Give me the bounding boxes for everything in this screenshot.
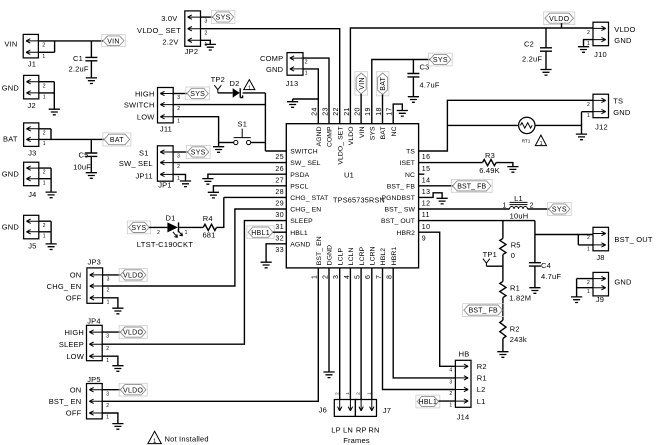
svg-text:RN: RN <box>368 425 379 434</box>
wire SYS to D1 anode <box>149 226 167 228</box>
wire JP3 pin1 to ground <box>103 298 118 308</box>
ground (J9) <box>571 297 582 303</box>
wire S1 left contact to ground <box>219 142 234 144</box>
svg-text:2: 2 <box>205 30 208 36</box>
svg-text:2: 2 <box>449 391 452 397</box>
wire switch node vertical to U1 pin25 <box>265 93 286 151</box>
svg-text:LOW: LOW <box>66 352 84 361</box>
connector J4 (GND header) <box>2 162 46 199</box>
svg-text:24: 24 <box>312 107 319 116</box>
switch S1 (pushbutton) <box>234 119 251 144</box>
wire JP1 pin2 to U1 pin26 SW_SEL <box>174 162 287 164</box>
svg-text:6.49K: 6.49K <box>479 166 500 175</box>
resistor R1 1.82M <box>500 281 531 302</box>
svg-text:BST_ EN: BST_ EN <box>316 236 323 265</box>
label LP LN RP RN <box>331 425 379 434</box>
svg-text:HBL1: HBL1 <box>290 230 308 237</box>
svg-text:1: 1 <box>106 415 109 421</box>
svg-text:NC: NC <box>405 172 415 179</box>
capacitor C1 2.2uF <box>69 41 98 78</box>
svg-text:2.2uF: 2.2uF <box>69 64 89 73</box>
svg-text:1: 1 <box>153 439 157 445</box>
svg-text:1: 1 <box>43 95 46 101</box>
wire U1 pin7 HBL2 to J14 pin2 <box>383 268 456 390</box>
svg-text:COMP: COMP <box>327 126 334 147</box>
svg-text:VIN: VIN <box>359 126 366 138</box>
ground (J12) <box>576 134 587 140</box>
svg-text:3.0V: 3.0V <box>161 14 177 23</box>
wire JP2 pin1 to ground <box>201 40 210 44</box>
ground (C1) <box>86 78 97 84</box>
wire J9 pins to ground <box>577 279 593 297</box>
svg-text:LCLP: LCLP <box>337 248 344 266</box>
svg-text:C5: C5 <box>79 151 89 160</box>
svg-text:JP1: JP1 <box>158 181 172 190</box>
svg-text:1: 1 <box>587 113 590 119</box>
svg-text:3: 3 <box>177 95 180 101</box>
svg-text:CHG_ EN: CHG_ EN <box>290 207 321 214</box>
svg-text:SYS: SYS <box>190 91 205 98</box>
svg-text:1: 1 <box>449 403 452 409</box>
svg-text:VLDO_ SET: VLDO_ SET <box>337 126 344 164</box>
wire U1 pin11 BST_SW to L1 <box>419 208 510 210</box>
svg-text:S1: S1 <box>238 119 248 128</box>
wire TS to thermistor RT1 <box>447 124 518 126</box>
svg-text:1.82M: 1.82M <box>509 294 531 303</box>
svg-text:VLDO: VLDO <box>614 25 635 34</box>
wire U1 pin13 BST_FB to net label <box>419 185 453 187</box>
svg-text:HBL2: HBL2 <box>380 248 387 266</box>
wire VLDO_SET net (JP2 pin2 to U1 pin22) <box>201 29 340 124</box>
svg-text:HIGH: HIGH <box>64 328 84 337</box>
svg-text:AGND: AGND <box>290 241 310 248</box>
wire L1 to SYS <box>528 208 549 210</box>
svg-text:31: 31 <box>275 224 284 231</box>
svg-text:GND: GND <box>266 65 284 74</box>
ground (C2) <box>540 70 551 76</box>
wire U1 pin14 NC stub <box>419 173 425 175</box>
ground (AGND pin33) <box>261 262 272 268</box>
svg-text:1: 1 <box>42 54 45 60</box>
connector J7 (RP/RN frames header) <box>355 392 391 417</box>
capacitor C3 4.7uF <box>407 60 439 97</box>
svg-text:BAT: BAT <box>380 126 387 139</box>
svg-text:243k: 243k <box>510 335 527 344</box>
svg-text:L1: L1 <box>514 194 523 203</box>
node SYS (at C3) <box>429 53 453 66</box>
svg-text:1: 1 <box>107 299 110 305</box>
connector JP2 (VLDO_SET select header) <box>137 11 207 56</box>
wire JP1 pin3 to SYS <box>174 151 188 153</box>
svg-text:J10: J10 <box>594 50 607 59</box>
svg-text:1: 1 <box>305 71 308 77</box>
svg-text:32: 32 <box>275 235 284 242</box>
svg-text:VLDO: VLDO <box>123 273 144 280</box>
svg-text:1: 1 <box>345 392 350 395</box>
wire U1 pin5 LCRP to J7 <box>360 268 362 400</box>
connector J10 (VLDO output header) <box>587 22 636 59</box>
svg-text:1: 1 <box>185 230 188 236</box>
wire U1 pin10 BST_OUT to C4/J8 <box>419 221 593 263</box>
warning triangle 1 (not installed note) <box>148 431 209 445</box>
node VLDO (top right net label) <box>544 12 575 28</box>
svg-text:1: 1 <box>177 118 180 124</box>
wire JP2 pin3 to SYS <box>201 16 213 18</box>
warning triangle 1 (at RT1) <box>535 135 546 147</box>
ground (R3) <box>507 167 518 173</box>
svg-text:RT1: RT1 <box>522 139 531 144</box>
svg-text:1: 1 <box>587 289 590 295</box>
wire JP1 pin1 to ground <box>174 174 186 181</box>
wire JP5 pin1 to ground <box>103 413 118 424</box>
svg-text:S1: S1 <box>139 148 149 157</box>
ground (J10) <box>578 47 589 53</box>
inductor L1 10uH <box>503 194 534 220</box>
ground (C5) <box>86 173 97 179</box>
svg-text:HBL1: HBL1 <box>418 399 437 406</box>
svg-text:R5: R5 <box>511 241 521 250</box>
wire JP5 pin3 to VLDO <box>103 389 121 391</box>
wire U1 pin19 SYS to C3 <box>372 60 430 124</box>
svg-text:2: 2 <box>43 223 46 229</box>
svg-text:2: 2 <box>177 106 180 112</box>
svg-text:PSCL: PSCL <box>290 183 308 190</box>
wire U1 pin31 SLEEP to JP4 pin2 <box>102 221 286 345</box>
svg-text:J11: J11 <box>160 124 172 133</box>
svg-text:TPS65735RSN: TPS65735RSN <box>333 196 385 205</box>
svg-text:SWITCH: SWITCH <box>124 101 155 110</box>
node BAT (vertical, at U1 pin18) <box>376 72 389 96</box>
node BST_FB (at R1/R2 divider) <box>463 304 504 317</box>
svg-text:22: 22 <box>333 107 340 116</box>
svg-text:ISET: ISET <box>399 160 415 167</box>
svg-text:TS: TS <box>613 96 623 105</box>
test point TP2 <box>211 75 225 93</box>
svg-text:GND: GND <box>614 277 632 286</box>
node BAT (net label) <box>103 133 131 146</box>
node SYS (at J11) <box>186 87 210 100</box>
wire U1 pin3 LCLP to J6 <box>339 268 341 400</box>
svg-text:Frames: Frames <box>343 436 370 445</box>
ground (JP2) <box>205 44 216 50</box>
node SYS (at JP2) <box>211 11 235 24</box>
svg-text:VLDO: VLDO <box>348 126 355 145</box>
svg-text:COMP: COMP <box>260 54 283 63</box>
svg-text:SYS: SYS <box>131 225 146 232</box>
connector JP5 (BST_EN select header) <box>49 375 109 421</box>
svg-text:SYS: SYS <box>370 126 377 140</box>
wire HBL1 to U1 pin32 <box>273 231 286 233</box>
ground (PSCL) <box>208 192 219 198</box>
svg-text:BST_ FB: BST_ FB <box>387 183 416 190</box>
svg-text:VIN: VIN <box>359 77 366 90</box>
svg-text:1: 1 <box>540 141 543 147</box>
svg-text:C2: C2 <box>524 40 534 49</box>
svg-text:J5: J5 <box>28 241 36 250</box>
wire J3 pins to BAT net <box>39 129 104 140</box>
svg-text:0: 0 <box>511 251 515 260</box>
svg-text:1: 1 <box>106 358 109 364</box>
svg-text:BST_ EN: BST_ EN <box>49 397 82 406</box>
svg-text:R1: R1 <box>477 374 487 383</box>
ground (PSDA) <box>202 179 213 185</box>
svg-text:OFF: OFF <box>66 293 82 302</box>
svg-text:DGND: DGND <box>327 245 334 265</box>
LED D1 LTST-C190CKT <box>137 214 194 249</box>
svg-text:2.2uF: 2.2uF <box>522 55 542 64</box>
svg-text:ON: ON <box>70 271 82 280</box>
capacitor C2 2.2uF <box>522 28 552 70</box>
wire J5 pins to ground <box>39 221 51 244</box>
wire HBL1 tag to J14 pin1 <box>439 400 456 402</box>
svg-text:16: 16 <box>422 154 431 161</box>
wire VIN tag to U1 pin20 <box>360 94 362 124</box>
wire J4 pins to ground <box>39 168 51 192</box>
connector JP3 (CHG_EN select header) <box>47 257 110 305</box>
svg-text:2: 2 <box>43 170 46 176</box>
capacitor C4 4.7uF <box>529 261 561 288</box>
svg-text:2: 2 <box>42 43 45 49</box>
wire U1 pin2 DGND to ground <box>328 268 330 372</box>
svg-text:2: 2 <box>107 288 110 294</box>
wire D2 cathode to switch node <box>243 92 266 94</box>
svg-text:HBL1: HBL1 <box>251 230 270 237</box>
svg-text:3: 3 <box>106 334 109 340</box>
connector JP4 (SLEEP select header) <box>59 317 109 364</box>
wire U1 pin30 CHG_EN to JP3 pin2 <box>103 209 287 286</box>
node VIN (net label) <box>102 35 126 47</box>
svg-text:GND: GND <box>2 169 20 178</box>
svg-text:SWITCH: SWITCH <box>290 149 317 156</box>
resistor R2 243k <box>500 320 527 344</box>
svg-text:LCLN: LCLN <box>348 248 355 266</box>
svg-text:GND: GND <box>613 108 631 117</box>
svg-text:14: 14 <box>422 177 431 184</box>
op-amp U1 TPS65735RSN (PMIC) <box>286 124 418 268</box>
svg-text:3: 3 <box>449 379 452 385</box>
wire U1 pin9 HBR2 to J14 pin4 <box>419 232 456 366</box>
svg-text:2: 2 <box>106 403 109 409</box>
label Frames <box>343 436 370 445</box>
wire JP3 pin3 to VLDO <box>103 274 120 276</box>
svg-text:681: 681 <box>202 230 215 239</box>
node VIN (vertical, at U1 pin20) <box>355 72 368 95</box>
svg-text:CHG_ EN: CHG_ EN <box>47 282 82 291</box>
svg-text:26: 26 <box>275 166 284 173</box>
wire J11 pin3 to SYS <box>174 93 188 95</box>
connector J14 (HB half-bridge header) <box>449 349 486 421</box>
svg-text:GND: GND <box>2 222 20 231</box>
svg-text:VIN: VIN <box>4 39 17 48</box>
wire R1 to BST_FB node / R2 <box>502 298 504 321</box>
svg-text:LN: LN <box>343 425 353 434</box>
svg-text:1: 1 <box>43 180 46 186</box>
svg-text:4: 4 <box>449 368 452 374</box>
svg-text:23: 23 <box>322 107 329 116</box>
svg-text:1: 1 <box>587 246 590 252</box>
svg-text:15: 15 <box>422 166 431 173</box>
node VLDO (at JP5) <box>119 383 147 396</box>
svg-text:GND: GND <box>2 84 20 93</box>
ground (R2) <box>497 352 508 358</box>
svg-text:4.7uF: 4.7uF <box>541 272 561 281</box>
svg-text:BST_ OUT: BST_ OUT <box>614 235 652 244</box>
svg-text:TP2: TP2 <box>211 75 225 84</box>
svg-text:C3: C3 <box>420 62 430 71</box>
wire U1 pin4 LCLN to J6 <box>349 268 351 400</box>
svg-text:J9: J9 <box>596 295 604 304</box>
wire U1 pin16 TS to J12 pin2 <box>419 100 593 151</box>
node VLDO (at JP3) <box>119 269 147 282</box>
svg-text:D2: D2 <box>230 79 240 88</box>
svg-text:GND: GND <box>614 36 632 45</box>
wire J10 pin1 to ground <box>584 40 594 47</box>
connector J2 (GND header) <box>2 75 46 110</box>
U1 pin numbers <box>275 107 430 279</box>
wire BAT tag to U1 pin18 <box>382 95 384 124</box>
svg-text:C1: C1 <box>73 54 83 63</box>
svg-text:1: 1 <box>503 203 507 210</box>
svg-text:LOW: LOW <box>137 113 155 122</box>
svg-text:TS: TS <box>406 149 415 156</box>
svg-text:SYS: SYS <box>216 15 231 22</box>
svg-text:29: 29 <box>275 201 284 208</box>
svg-text:12: 12 <box>422 201 431 208</box>
svg-text:PSDA: PSDA <box>290 172 309 179</box>
ground (J13/AGND) <box>287 102 298 108</box>
wire U1 pin15 ISET to R3 <box>419 162 483 164</box>
ground (C3) <box>408 97 419 103</box>
svg-text:27: 27 <box>275 177 284 184</box>
wire JP4 pin3 to VLDO <box>103 331 121 333</box>
wire RT1 to J12 pin1 / ground <box>535 112 593 134</box>
svg-text:2: 2 <box>356 392 361 395</box>
svg-text:TP1: TP1 <box>483 250 497 259</box>
svg-text:1: 1 <box>366 392 371 395</box>
svg-text:BAT: BAT <box>110 137 124 144</box>
svg-text:BST_ SW: BST_ SW <box>384 207 415 214</box>
svg-text:SW_ SEL: SW_ SEL <box>119 159 153 168</box>
svg-text:R3: R3 <box>485 151 495 160</box>
svg-text:2: 2 <box>587 30 590 36</box>
node BST_FB (at U1 pin13) <box>451 180 492 193</box>
svg-text:RP: RP <box>356 425 367 434</box>
svg-text:13: 13 <box>422 189 431 196</box>
svg-text:VLDO: VLDO <box>123 330 144 337</box>
resistor R5 0 <box>500 238 521 260</box>
svg-text:J2: J2 <box>28 101 36 110</box>
svg-text:JP2: JP2 <box>185 47 199 56</box>
ground (JP1) <box>180 181 191 187</box>
wire R2 to ground <box>502 339 504 352</box>
wire TP2 to D2 anode <box>218 92 233 94</box>
wire J11 pin1 to ground <box>174 117 219 147</box>
wire J1 pins to VIN net <box>38 41 103 52</box>
svg-text:SYS: SYS <box>552 207 567 214</box>
wire JP4 pin1 to ground <box>103 356 118 366</box>
wire BST_OUT to R5 <box>502 221 504 239</box>
svg-text:BST_ FB: BST_ FB <box>469 308 498 315</box>
svg-text:VIN: VIN <box>107 38 120 45</box>
wire U1 pin12 PGNDBST to ground <box>419 193 443 199</box>
connector J13 (COMP header) <box>260 53 308 88</box>
svg-text:9: 9 <box>422 235 426 242</box>
ground (JP5) <box>112 424 123 430</box>
svg-text:JP11: JP11 <box>135 171 152 180</box>
svg-text:LP: LP <box>331 425 341 434</box>
svg-text:1: 1 <box>43 141 46 147</box>
wire J13 pin1 / U1 pin24 AGND to ground <box>293 69 319 124</box>
capacitor C5 10uF <box>73 139 97 172</box>
svg-text:1: 1 <box>43 233 46 239</box>
svg-text:HBR2: HBR2 <box>396 230 415 237</box>
svg-text:30: 30 <box>275 212 284 219</box>
connector J5 (GND header) <box>2 215 46 250</box>
svg-text:J14: J14 <box>457 412 470 421</box>
wire U1 pin21 VLDO to J10 <box>350 28 593 124</box>
svg-text:LTST-C190CKT: LTST-C190CKT <box>137 240 194 249</box>
svg-text:J8: J8 <box>596 253 604 262</box>
node SYS (at L1) <box>548 203 572 216</box>
ground (JP4) <box>112 366 123 372</box>
svg-text:D1: D1 <box>166 214 176 223</box>
svg-text:SLEEP: SLEEP <box>290 218 313 225</box>
svg-text:VLDO: VLDO <box>549 16 570 23</box>
svg-text:10: 10 <box>422 224 431 231</box>
svg-text:SW_ SEL: SW_ SEL <box>290 160 320 167</box>
warning triangle 1 (at D2) <box>244 80 255 92</box>
svg-text:HBR1: HBR1 <box>391 247 398 266</box>
svg-text:BST_ FB: BST_ FB <box>457 184 486 191</box>
connector J9 (GND header) <box>587 272 632 304</box>
diode D2 (Schottky) <box>230 79 243 98</box>
svg-text:AGND: AGND <box>316 126 323 146</box>
svg-text:U1: U1 <box>344 171 354 180</box>
svg-text:2: 2 <box>106 346 109 352</box>
svg-text:R1: R1 <box>510 284 520 293</box>
connector J6 (LP/LN frames header) <box>319 392 356 417</box>
wire R3 to ground <box>496 163 513 167</box>
ground (DGND) <box>323 372 334 378</box>
svg-text:SYS: SYS <box>191 150 206 157</box>
svg-text:33: 33 <box>275 247 284 254</box>
wire U1 pin8 HBR1 to J14 pin3 <box>393 268 455 378</box>
svg-text:J1: J1 <box>28 60 36 69</box>
wire U1 pin27 PSDA to ground <box>208 174 286 178</box>
svg-text:NC: NC <box>391 126 398 136</box>
svg-text:CHG_ STAT: CHG_ STAT <box>290 195 328 202</box>
svg-text:C4: C4 <box>541 261 551 270</box>
node HBL1 (at U1 pin32) <box>247 226 274 239</box>
svg-text:R4: R4 <box>203 214 213 223</box>
thermistor RT1 <box>519 117 535 143</box>
svg-text:3: 3 <box>177 154 180 160</box>
svg-text:11: 11 <box>422 212 430 219</box>
svg-text:BST_ OUT: BST_ OUT <box>381 218 415 225</box>
svg-text:10uH: 10uH <box>510 211 529 220</box>
svg-text:BAT: BAT <box>3 135 18 144</box>
svg-text:ON: ON <box>70 386 82 395</box>
resistor R3 6.49K <box>479 151 500 175</box>
wire J11 pin2 to switch net <box>174 104 266 106</box>
svg-text:2.2V: 2.2V <box>162 37 178 46</box>
svg-text:J13: J13 <box>286 79 299 88</box>
svg-text:2: 2 <box>43 130 46 136</box>
svg-text:J12: J12 <box>595 123 608 132</box>
svg-text:2: 2 <box>587 280 590 286</box>
node SYS (at JP1) <box>186 146 210 159</box>
wire J13 pin2 to U1 pin23 COMP <box>303 58 329 124</box>
